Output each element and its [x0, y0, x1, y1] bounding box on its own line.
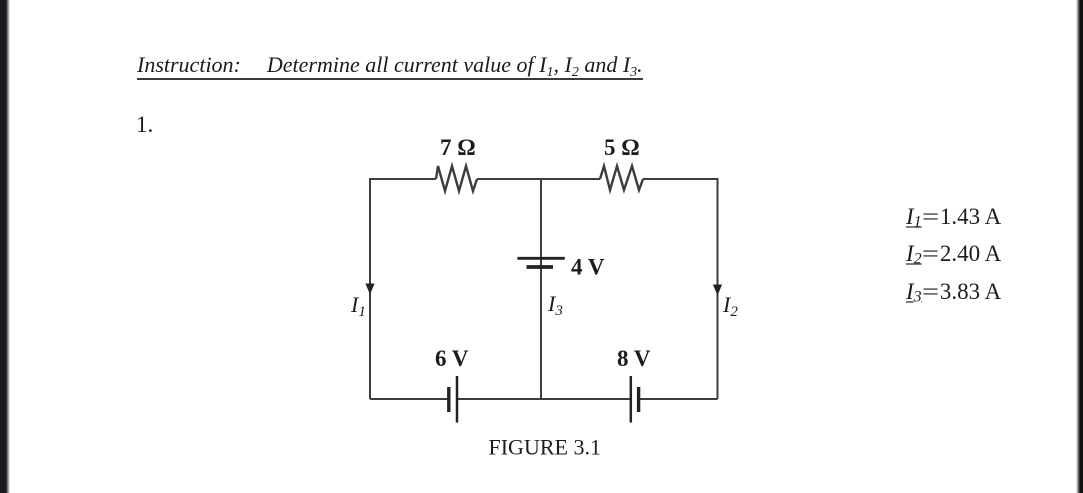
arrow I1 downward — [365, 284, 374, 295]
left black scan bar — [0, 0, 10, 493]
svg-text:I3: I3 — [547, 291, 563, 319]
battery V2 6V short plate — [447, 387, 450, 412]
answers — [906, 204, 1001, 232]
wire top-left segment — [370, 178, 436, 180]
resistor R2 5-ohm zigzag — [600, 166, 643, 190]
right dark scan edge — [1076, 0, 1083, 493]
wire top-middle segment — [477, 178, 600, 180]
wire middle branch — [540, 179, 542, 399]
svg-text:I1: I1 — [350, 292, 366, 320]
item number 1. — [136, 112, 153, 138]
svg-text:8 V: 8 V — [617, 346, 651, 371]
battery V1 4V short plate — [527, 265, 554, 269]
battery V1 4V long plate — [517, 257, 564, 260]
wire left branch — [369, 178, 371, 399]
instruction heading — [137, 52, 643, 80]
svg-text:7 Ω: 7 Ω — [440, 135, 476, 160]
svg-text:FIGURE 3.1: FIGURE 3.1 — [489, 435, 601, 460]
svg-text:6 V: 6 V — [435, 346, 469, 371]
battery V2 6V long plate — [456, 376, 459, 423]
wire bottom-left segment — [370, 398, 448, 400]
wire bottom-middle segment — [458, 398, 630, 400]
battery V3 8V long plate — [630, 376, 633, 423]
resistor R1 7-ohm zigzag — [436, 166, 477, 191]
svg-text:4 V: 4 V — [571, 255, 605, 280]
wire right branch — [717, 178, 719, 399]
svg-text:5 Ω: 5 Ω — [604, 135, 640, 160]
arrow I2 downward — [713, 285, 722, 296]
battery V3 8V short plate — [637, 387, 640, 412]
wire top-right segment — [643, 178, 718, 180]
svg-text:I2: I2 — [722, 292, 738, 320]
wire bottom-right segment — [640, 398, 718, 400]
